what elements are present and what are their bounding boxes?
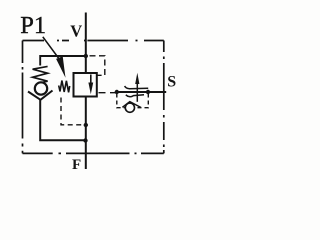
- enclosure bottom edge (dash-dot): [23, 152, 164, 154]
- wire: branch to check valve: [40, 56, 86, 66]
- bypass check valve seat: [122, 102, 141, 108]
- enclosure left edge (dash-dot): [22, 41, 24, 154]
- wire: S port line: [117, 91, 167, 93]
- relief valve spring: [59, 81, 70, 93]
- pilot line (dashed) from junction to valve right side: [90, 56, 105, 76]
- svg-text:V: V: [70, 22, 82, 41]
- check valve spring: [33, 66, 48, 82]
- node: junction drain return: [84, 123, 88, 127]
- throttle top arc: [125, 86, 149, 89]
- node: junction V-branch: [84, 54, 88, 58]
- enclosure top edge (dash-dot): [23, 40, 164, 42]
- node: junction bypass right: [146, 90, 150, 94]
- svg-text:F: F: [72, 157, 81, 173]
- throttle bottom arc: [126, 95, 144, 97]
- relief valve RV1 body: [74, 73, 97, 97]
- bypass check valve ball: [125, 103, 134, 112]
- svg-text:P1: P1: [20, 12, 46, 39]
- check valve seat: [28, 91, 53, 100]
- bypass dashed loop: [117, 94, 125, 108]
- wire: main vertical line V to F: [85, 13, 87, 74]
- check valve ball: [35, 82, 47, 94]
- wire: check valve down and to main line: [40, 100, 85, 141]
- leader arrow from P1 to relief valve: [43, 37, 59, 59]
- wire: dashed link valve to S line: [99, 92, 117, 94]
- relief valve flow arrow: [90, 75, 92, 84]
- enclosure right edge (dash-dot): [163, 41, 165, 154]
- throttle adjust arrow: [136, 84, 138, 102]
- drain line (dashed) from spring side to main line: [61, 98, 84, 125]
- node: junction bypass left: [115, 90, 119, 94]
- svg-text:S: S: [167, 74, 176, 91]
- node: junction bottom branch: [83, 138, 87, 142]
